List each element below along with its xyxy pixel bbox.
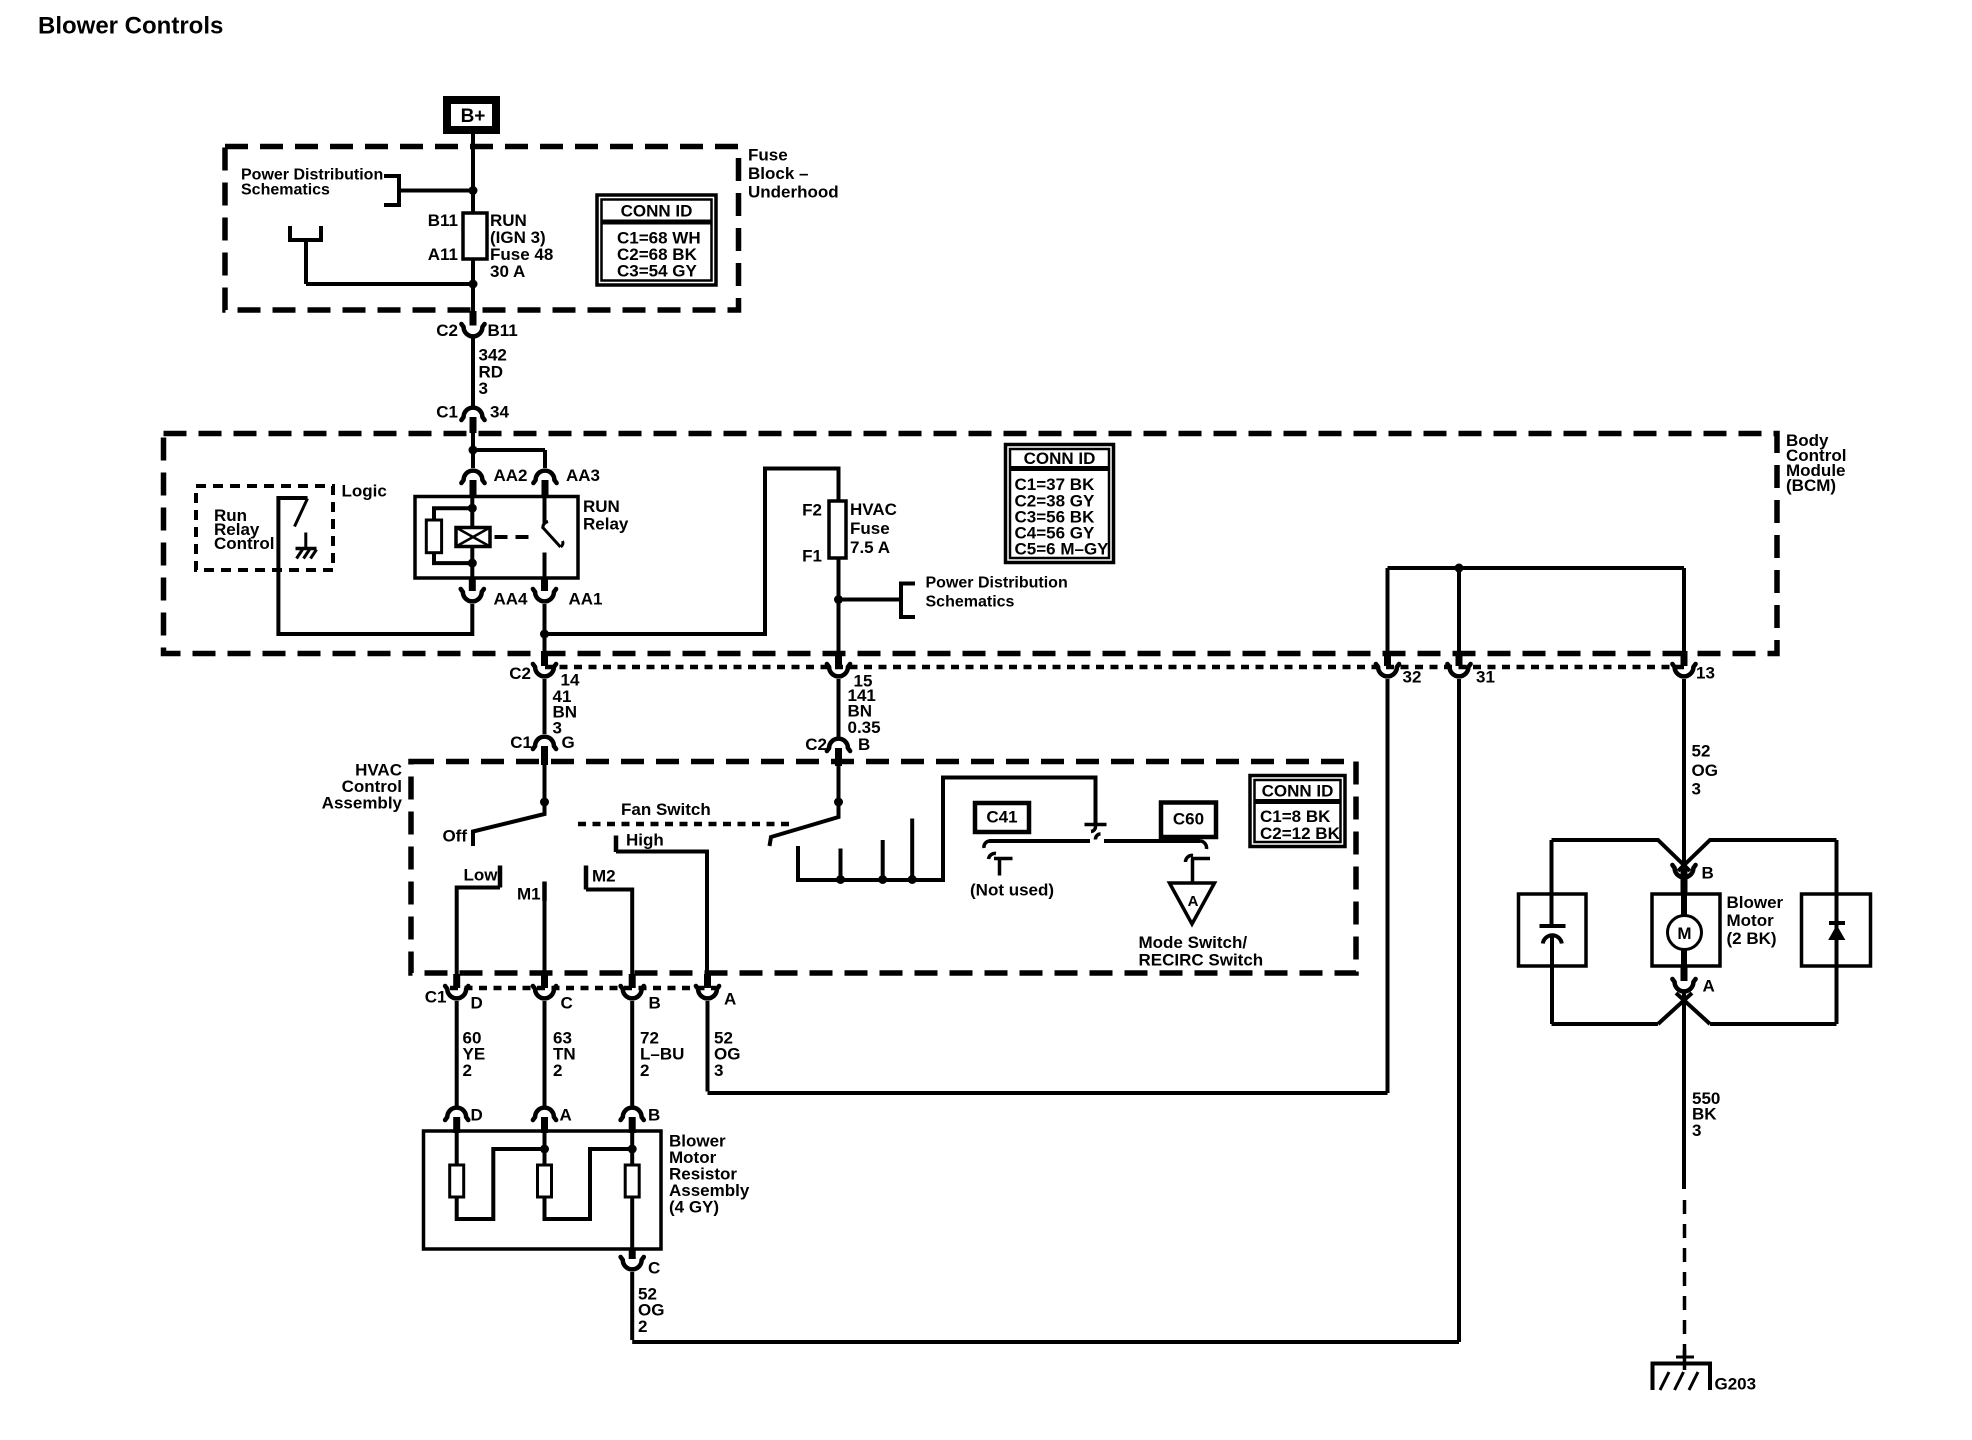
svg-text:C: C: [561, 994, 573, 1013]
svg-text:30 A: 30 A: [490, 262, 525, 281]
svg-text:(4 GY): (4 GY): [669, 1198, 719, 1217]
svg-text:Relay: Relay: [583, 515, 629, 534]
svg-text:Motor: Motor: [1727, 911, 1775, 930]
svg-text:Low: Low: [464, 866, 499, 885]
svg-text:Fuse: Fuse: [748, 146, 788, 165]
svg-text:2: 2: [638, 1317, 647, 1336]
svg-text:G203: G203: [1715, 1375, 1757, 1394]
svg-text:(BCM): (BCM): [1786, 476, 1836, 495]
svg-text:A: A: [560, 1106, 572, 1125]
svg-text:Block –: Block –: [748, 164, 808, 183]
svg-text:Schematics: Schematics: [926, 594, 1015, 611]
svg-text:C3=54 GY: C3=54 GY: [617, 262, 698, 281]
svg-text:CONN ID: CONN ID: [1262, 782, 1334, 801]
svg-text:32: 32: [1403, 668, 1422, 687]
svg-text:B11: B11: [488, 321, 518, 340]
svg-text:M2: M2: [592, 867, 616, 886]
svg-text:CONN ID: CONN ID: [621, 202, 693, 221]
svg-text:AA3: AA3: [566, 466, 600, 485]
svg-text:(2 BK): (2 BK): [1727, 929, 1777, 948]
svg-text:CONN ID: CONN ID: [1024, 449, 1096, 468]
svg-text:2: 2: [463, 1061, 472, 1080]
svg-text:3: 3: [1692, 780, 1701, 799]
svg-text:Blower Controls: Blower Controls: [38, 13, 223, 40]
svg-text:C5=6 M–GY: C5=6 M–GY: [1015, 540, 1110, 559]
svg-text:B11: B11: [428, 211, 458, 230]
svg-text:Blower: Blower: [1727, 893, 1784, 912]
svg-text:Fuse: Fuse: [850, 519, 890, 538]
svg-text:M1: M1: [517, 885, 541, 904]
svg-text:A11: A11: [428, 245, 458, 264]
svg-text:2: 2: [640, 1061, 649, 1080]
svg-text:C2: C2: [509, 664, 531, 683]
svg-text:A: A: [724, 990, 736, 1009]
svg-text:Assembly: Assembly: [322, 794, 403, 813]
svg-text:B: B: [648, 1106, 660, 1125]
svg-text:C1: C1: [510, 733, 532, 752]
svg-text:A: A: [1188, 893, 1199, 910]
svg-text:Power Distribution: Power Distribution: [926, 575, 1068, 592]
svg-text:B: B: [649, 994, 661, 1013]
svg-text:C2=12 BK: C2=12 BK: [1260, 824, 1341, 843]
svg-text:Schematics: Schematics: [241, 182, 330, 199]
svg-text:B: B: [1702, 864, 1714, 883]
svg-text:M: M: [1677, 924, 1691, 943]
svg-text:13: 13: [1696, 664, 1715, 683]
svg-text:Control: Control: [214, 534, 274, 553]
svg-text:C1: C1: [436, 403, 458, 422]
svg-text:A: A: [1703, 977, 1715, 996]
svg-text:F2: F2: [802, 501, 822, 520]
svg-text:52: 52: [1692, 742, 1711, 761]
svg-text:(Not used): (Not used): [970, 881, 1054, 900]
svg-text:Logic: Logic: [342, 482, 387, 501]
svg-text:AA4: AA4: [494, 590, 529, 609]
svg-text:D: D: [471, 1106, 483, 1125]
svg-text:3: 3: [714, 1061, 723, 1080]
svg-text:RUN: RUN: [583, 497, 620, 516]
svg-text:34: 34: [490, 403, 509, 422]
svg-text:High: High: [626, 831, 664, 850]
svg-text:Fan Switch: Fan Switch: [621, 800, 711, 819]
svg-text:Underhood: Underhood: [748, 183, 839, 202]
svg-text:AA2: AA2: [494, 466, 528, 485]
svg-text:C41: C41: [986, 808, 1017, 827]
svg-text:AA1: AA1: [569, 590, 603, 609]
svg-text:2: 2: [553, 1061, 562, 1080]
svg-text:C1: C1: [425, 988, 447, 1007]
svg-text:3: 3: [1692, 1121, 1701, 1140]
svg-text:3: 3: [479, 379, 488, 398]
svg-text:Off: Off: [442, 827, 467, 846]
svg-text:HVAC: HVAC: [850, 500, 897, 519]
svg-text:B+: B+: [461, 106, 486, 127]
svg-text:D: D: [471, 994, 483, 1013]
svg-text:C: C: [648, 1259, 660, 1278]
svg-text:7.5 A: 7.5 A: [850, 538, 890, 557]
svg-text:C2: C2: [805, 735, 827, 754]
svg-text:31: 31: [1476, 668, 1495, 687]
svg-text:C60: C60: [1173, 810, 1204, 829]
svg-text:G: G: [562, 733, 575, 752]
svg-text:RECIRC Switch: RECIRC Switch: [1139, 951, 1264, 970]
svg-text:F1: F1: [802, 547, 822, 566]
svg-text:C2: C2: [436, 321, 458, 340]
svg-text:Mode Switch/: Mode Switch/: [1139, 933, 1248, 952]
svg-text:B: B: [858, 735, 870, 754]
svg-text:OG: OG: [1692, 761, 1718, 780]
